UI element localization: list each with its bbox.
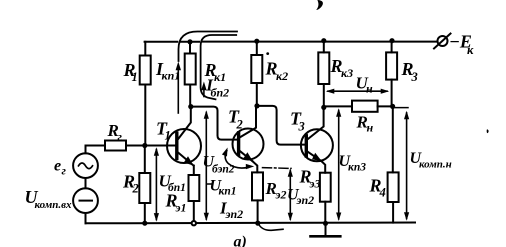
svg-text:к3: к3: [341, 66, 353, 80]
wire load: [324, 105, 393, 107]
svg-text:эп2: эп2: [296, 193, 315, 207]
svg-text:кп1: кп1: [162, 69, 181, 83]
svg-text:г: г: [118, 130, 123, 144]
node open circle: [192, 221, 196, 225]
arrow Uкп3: [338, 111, 340, 219]
svg-text:г: г: [62, 164, 67, 178]
wire T1 collector to T2 base: [191, 107, 238, 140]
svg-text:кп3: кп3: [348, 162, 366, 174]
wire hop Iкп1: [179, 32, 238, 62]
node collector T1: [188, 104, 193, 109]
svg-text:е: е: [54, 158, 61, 175]
wire base of T1: [86, 146, 177, 154]
curve Iэп2: [259, 224, 284, 230]
svg-text:4: 4: [379, 186, 386, 200]
svg-text:бп2: бп2: [211, 86, 230, 100]
svg-text:э3: э3: [309, 177, 321, 191]
arrow Uэп2: [289, 171, 291, 220]
wire between sources: [85, 178, 87, 188]
svg-text:а): а): [234, 234, 247, 247]
svg-text:2: 2: [236, 118, 243, 132]
node Rэ2 bottom: [255, 221, 260, 226]
resistor R2: [144, 146, 146, 174]
resistor Rн: [352, 101, 378, 112]
svg-text:1: 1: [165, 129, 171, 143]
wire stub to Uкомп.н arrow: [393, 107, 408, 109]
wire T2 collector to T3 base: [257, 106, 306, 145]
svg-text:кп1: кп1: [219, 186, 237, 198]
arrow Iкп1: [177, 70, 179, 113]
dot above Rк2 label: [266, 52, 269, 55]
node top of R3: [389, 38, 394, 43]
svg-text:к2: к2: [276, 69, 288, 83]
svg-text:бэп2: бэп2: [212, 164, 235, 176]
arrow Uн: [328, 90, 387, 92]
node top of Rк1: [187, 39, 192, 44]
resistor Rк2: [256, 41, 258, 55]
node top of Rк2: [254, 39, 259, 44]
svg-text:комп.н: комп.н: [419, 159, 452, 171]
source Uкомп.вх: [73, 188, 98, 213]
wire bottom rail: [86, 222, 416, 225]
arrow Iбп2: [203, 89, 205, 97]
wire hop Iбп2: [201, 35, 237, 99]
generator eг: [73, 153, 98, 178]
wire to bottom rail: [85, 213, 87, 223]
node collector T3: [321, 105, 326, 110]
transistor T1: [167, 129, 201, 163]
svg-text:к1: к1: [214, 70, 226, 84]
speck: [487, 129, 489, 133]
resistor Rг: [105, 141, 126, 151]
transistor T3: [301, 129, 333, 161]
node ground: [323, 221, 328, 226]
resistor Rэ1: [189, 175, 200, 201]
resistor R3: [391, 41, 393, 53]
wire top rail: [145, 41, 437, 43]
resistor Rк1: [189, 42, 191, 54]
arrow Uбп1: [155, 150, 157, 220]
node collector T2: [254, 103, 259, 108]
svg-text:э1: э1: [175, 201, 187, 215]
arrow Uкп1: [205, 113, 207, 220]
transistor T2: [233, 129, 264, 160]
node R2 bottom: [142, 221, 147, 226]
svg-text:э2: э2: [275, 188, 287, 202]
svg-text:3: 3: [411, 70, 418, 84]
svg-text:к: к: [467, 43, 474, 57]
arrow Uкомп.н: [406, 113, 408, 219]
resistor Rк3: [323, 41, 325, 53]
svg-text:3: 3: [298, 120, 305, 134]
resistor R1: [144, 42, 146, 56]
ground: [325, 223, 327, 236]
node top of Rк3: [321, 38, 326, 43]
arrow arc Uбэп2: [225, 151, 248, 169]
label tick -Uкп1: [206, 183, 211, 185]
svg-text:1: 1: [132, 70, 138, 84]
svg-text:эп2: эп2: [225, 207, 244, 221]
svg-text:комп.вх: комп.вх: [35, 199, 73, 211]
node base T1: [142, 143, 147, 148]
terminal -E supply: [438, 36, 448, 46]
svg-text:н: н: [367, 121, 374, 135]
comma mark top: [316, 0, 323, 10]
svg-text:2: 2: [132, 182, 139, 196]
resistor Rэ3: [320, 173, 331, 202]
node load right: [390, 104, 395, 109]
resistor R4: [392, 106, 394, 172]
svg-text:н: н: [366, 82, 373, 96]
resistor Rэ2: [252, 172, 263, 200]
dash-dot emitter T2 level: [263, 167, 292, 170]
